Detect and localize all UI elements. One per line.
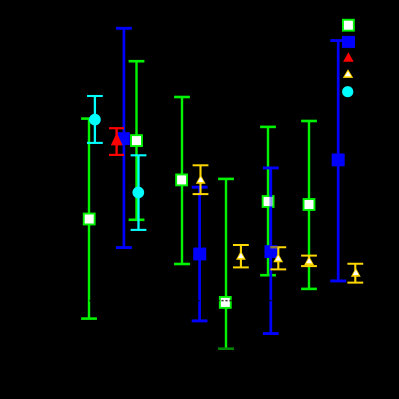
cyan point 1 circle marker: [89, 114, 101, 126]
red point 1 filled triangle marker: [111, 133, 123, 146]
yellow point 2 error bar: [233, 245, 249, 267]
yellow point 3 open triangle marker: [273, 253, 283, 262]
legend cyan circle marker: [342, 86, 353, 97]
green point 6 error bar: [301, 121, 317, 289]
blue point 3 filled square marker: [265, 245, 278, 258]
green point 4 open square marker: [220, 297, 231, 308]
blue point 2 error bar: [192, 187, 208, 321]
dashed black reference line: [50, 300, 368, 302]
green point 4 error bar: [218, 179, 234, 349]
blue point 4 error bar: [330, 41, 346, 281]
green point 1 open square marker: [84, 214, 95, 225]
legend blue filled square marker: [342, 36, 355, 48]
legend red filled triangle marker: [343, 52, 354, 62]
yellow cap over blue square blend: [271, 246, 278, 248]
cyan point 2 circle marker: [132, 187, 144, 199]
red point 1 error bar: [109, 128, 124, 155]
legend yellow open triangle marker: [343, 69, 353, 78]
legend green open square marker: [343, 20, 354, 31]
green point 3 error bar: [174, 97, 190, 264]
blue point 2 filled square marker: [193, 248, 206, 261]
green point 2 open square marker: [131, 135, 142, 146]
green point 1 error bar: [81, 119, 97, 319]
blue point 3 error bar: [263, 168, 279, 334]
cyan point 1 error bar: [87, 96, 103, 143]
yellow point 4 error bar: [301, 256, 317, 267]
yellow point 5 error bar: [347, 264, 363, 283]
yellow point 5 open triangle marker: [351, 268, 361, 277]
cyan point 2 error bar: [131, 155, 147, 230]
blue point 1 filled square marker: [117, 132, 130, 145]
green point 5 open square marker: [263, 196, 274, 207]
yellow point 4 open triangle marker: [304, 256, 314, 265]
blue point 4 filled square marker: [332, 154, 345, 167]
blue line over white square face blend: [270, 197, 272, 207]
yellow point 3 error bar: [270, 247, 286, 269]
green point 6 open square marker: [304, 199, 315, 210]
green point 2 error bar: [129, 61, 145, 220]
yellow point 1 open triangle marker: [196, 175, 206, 184]
yellow point 1 error bar: [193, 165, 209, 194]
yellow point 2 open triangle marker: [236, 251, 246, 260]
blue point 1 error bar: [116, 28, 132, 247]
green point 5 error bar: [260, 127, 276, 275]
green point 3 open square marker: [176, 174, 187, 185]
